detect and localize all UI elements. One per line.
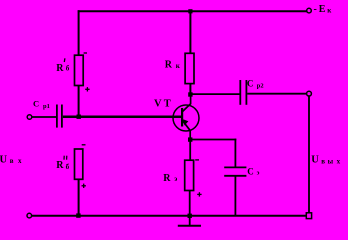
wire base from Cp1 to transistor <box>63 116 182 119</box>
terminal -Ek <box>307 8 312 13</box>
capacitor Ce <box>224 167 246 175</box>
node emitter junction <box>188 137 192 141</box>
svg-text:C: C <box>247 166 254 176</box>
terminal input <box>27 115 32 120</box>
wire Re to bottom rail <box>189 191 191 217</box>
svg-text:р1: р1 <box>43 103 50 110</box>
node collector junction <box>188 92 192 96</box>
svg-text:р2: р2 <box>257 82 264 89</box>
wire Ce bottom vertical <box>234 177 236 217</box>
node junction top rail / Rk <box>188 9 192 13</box>
label Re <box>163 173 177 184</box>
ground <box>178 216 201 226</box>
svg-text:б: б <box>66 163 70 171</box>
capacitor Cp2 <box>240 80 246 105</box>
svg-text:C: C <box>247 79 254 89</box>
label Uvyx <box>311 154 340 165</box>
label R'b <box>56 58 70 74</box>
wire R'b to base node <box>78 86 80 118</box>
resistor R''b <box>75 145 86 188</box>
svg-text:U: U <box>0 154 8 165</box>
wire Ce top vertical <box>234 139 236 167</box>
transistor VT <box>173 96 199 141</box>
label Cp1 <box>33 98 50 110</box>
resistor Rk <box>185 10 194 94</box>
wire collector to Cp2 <box>191 93 240 95</box>
svg-text:C: C <box>33 98 39 108</box>
label Rk <box>165 60 181 71</box>
svg-text:в: в <box>321 157 325 165</box>
svg-text:х: х <box>18 157 22 165</box>
label R''b <box>56 156 69 171</box>
node base junction <box>77 115 81 119</box>
svg-text:VT: VT <box>154 98 173 109</box>
wire input terminal to Cp1 <box>32 116 56 118</box>
wire output vertical <box>308 96 310 213</box>
terminal output bottom <box>306 213 311 219</box>
svg-text:э: э <box>174 175 177 183</box>
capacitor Cp1 <box>57 105 62 128</box>
label Cp2 <box>247 79 264 90</box>
svg-text:E: E <box>319 4 326 15</box>
svg-text:R: R <box>56 160 64 171</box>
svg-text:в: в <box>10 157 14 165</box>
label Uvx <box>0 154 22 165</box>
resistor R'b <box>75 53 90 92</box>
label -Ek <box>314 4 333 15</box>
wire bottom rail <box>32 215 307 217</box>
terminal input bottom <box>27 213 32 218</box>
svg-text:R: R <box>165 60 173 71</box>
svg-text:э: э <box>257 169 260 176</box>
svg-text:U: U <box>311 154 319 165</box>
wire R''b to bottom rail <box>78 179 80 215</box>
node bottom rail / R''b <box>76 213 80 217</box>
svg-text:-: - <box>314 4 317 15</box>
wire emitter node to Ce <box>190 139 236 141</box>
terminal output top <box>307 91 312 96</box>
wire emitter to Re <box>189 140 191 161</box>
svg-text:х: х <box>337 157 341 165</box>
node bottom rail / Re <box>188 214 192 218</box>
resistor Re <box>185 160 202 197</box>
svg-text:ы: ы <box>328 157 334 165</box>
wire Cp2 to output terminal <box>247 93 306 95</box>
label Ce <box>247 166 259 176</box>
wire top rail <box>78 10 307 12</box>
svg-text:б: б <box>66 64 70 72</box>
svg-text:R: R <box>163 173 171 184</box>
svg-text:R: R <box>56 63 64 74</box>
wire left branch vertical from top rail to R'b <box>78 10 80 55</box>
